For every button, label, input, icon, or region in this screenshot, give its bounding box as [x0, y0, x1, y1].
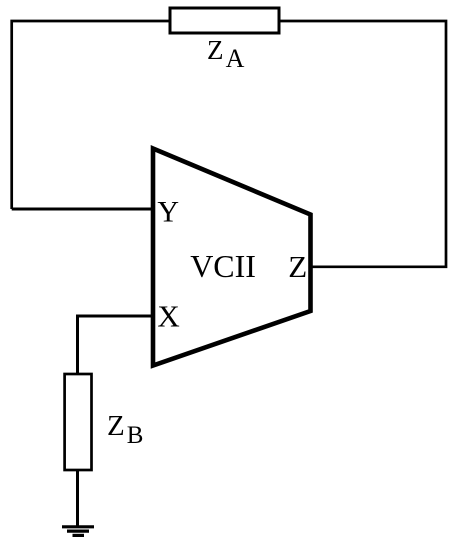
svg-text:X: X	[157, 298, 179, 333]
svg-text:VCII: VCII	[190, 248, 256, 284]
svg-text:Z: Z	[107, 410, 125, 442]
svg-text:Z: Z	[207, 35, 224, 65]
svg-text:A: A	[226, 44, 245, 73]
svg-text:Z: Z	[288, 249, 307, 284]
svg-text:B: B	[127, 422, 144, 449]
svg-text:Y: Y	[157, 195, 179, 228]
